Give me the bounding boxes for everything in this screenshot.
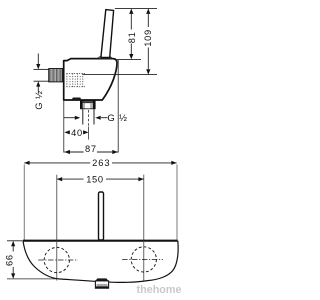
- svg-text:263: 263: [92, 158, 110, 168]
- svg-text:81: 81: [127, 31, 137, 43]
- svg-text:109: 109: [143, 29, 153, 47]
- svg-text:66: 66: [5, 254, 15, 266]
- svg-text:G ½: G ½: [34, 91, 45, 110]
- svg-text:150: 150: [86, 175, 104, 185]
- svg-text:40: 40: [71, 128, 83, 138]
- svg-text:G ½: G ½: [107, 113, 127, 124]
- svg-text:thehome: thehome: [137, 284, 182, 296]
- svg-text:87: 87: [85, 144, 97, 154]
